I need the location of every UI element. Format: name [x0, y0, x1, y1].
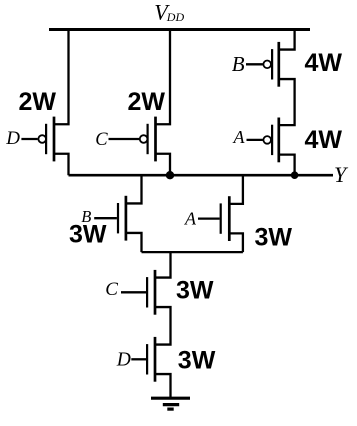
- svg-text:A: A: [184, 208, 197, 228]
- value label 3W (NMOS A): [255, 223, 293, 251]
- transistor NMOS D (3W): [131, 337, 155, 382]
- svg-text:DD: DD: [166, 10, 185, 24]
- label A (PMOS A gate): [233, 127, 246, 147]
- junction node (PMOS C source at Y): [166, 171, 174, 179]
- value label 3W (NMOS B): [69, 221, 107, 249]
- svg-text:3W: 3W: [178, 346, 216, 374]
- label D (NMOS D gate): [116, 349, 131, 370]
- label B (NMOS B gate): [81, 207, 91, 226]
- transistor NMOS B (3W): [94, 196, 126, 241]
- svg-text:3W: 3W: [176, 276, 214, 304]
- svg-text:D: D: [116, 349, 131, 370]
- value label 4W (PMOS B): [305, 49, 343, 77]
- wire NMOS D source to ground: [155, 374, 171, 397]
- value label 3W (NMOS C): [176, 276, 214, 304]
- wire VDD to PMOS B drain: [279, 30, 295, 50]
- transistor PMOS C (2W): [109, 117, 156, 162]
- output rail Y: [69, 174, 334, 177]
- svg-text:2W: 2W: [128, 88, 166, 116]
- value label 2W (PMOS D): [19, 88, 57, 116]
- value label 2W (PMOS C): [128, 88, 166, 116]
- svg-text:A: A: [233, 127, 246, 147]
- label D (PMOS D gate): [5, 128, 20, 149]
- ground: [151, 398, 190, 409]
- svg-text:3W: 3W: [69, 221, 107, 249]
- wire PMOS B source to PMOS A drain: [279, 79, 295, 125]
- label A (NMOS A gate): [184, 208, 197, 228]
- svg-text:Y: Y: [334, 162, 349, 187]
- transistor PMOS A (4W): [247, 118, 279, 163]
- wire node N1 to NMOS C drain: [155, 252, 171, 277]
- wire NMOS B source down to node N1: [126, 233, 142, 252]
- transistor NMOS A (3W): [198, 196, 229, 241]
- value label 4W (PMOS A): [305, 126, 343, 154]
- junction node (PMOS A source at Y): [291, 171, 299, 179]
- svg-text:B: B: [232, 52, 245, 76]
- label B (PMOS B gate): [232, 52, 245, 76]
- wire VDD to PMOS C drain: [156, 30, 171, 125]
- label C (NMOS C gate): [105, 279, 118, 300]
- wire PMOS D source to output rail: [54, 154, 69, 175]
- transistor PMOS D (2W): [21, 117, 54, 162]
- net VDD label: [154, 0, 184, 25]
- wire output rail to NMOS B drain: [126, 175, 142, 203]
- power rail VDD: [49, 28, 310, 31]
- net Y label: [334, 162, 349, 187]
- value label 3W (NMOS D): [178, 346, 216, 374]
- wire VDD to PMOS D drain: [54, 30, 69, 125]
- wire PMOS C source to output rail: [156, 154, 171, 175]
- svg-text:D: D: [5, 128, 20, 149]
- wire node N1 horizontal: [142, 251, 243, 253]
- svg-text:4W: 4W: [305, 126, 343, 154]
- wire output rail to NMOS A drain: [229, 175, 243, 204]
- label C (PMOS C gate): [95, 130, 108, 150]
- wire NMOS C source to NMOS D drain: [155, 307, 171, 345]
- transistor PMOS B (4W): [246, 42, 279, 87]
- transistor NMOS C (3W): [121, 270, 155, 315]
- wire NMOS A source down to node N1: [229, 233, 243, 252]
- svg-text:C: C: [105, 279, 118, 300]
- svg-text:4W: 4W: [305, 49, 343, 77]
- wire PMOS A source to output rail: [279, 155, 295, 176]
- svg-text:C: C: [95, 130, 108, 150]
- svg-text:2W: 2W: [19, 88, 57, 116]
- svg-text:3W: 3W: [255, 223, 293, 251]
